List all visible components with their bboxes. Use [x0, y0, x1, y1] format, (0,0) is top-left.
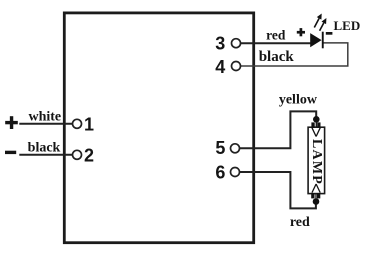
LED light arrow 1 [314, 18, 319, 27]
LED light arrow 2 [320, 23, 324, 31]
lamp top connector [311, 116, 320, 137]
terminal 5 [231, 144, 240, 153]
plus sign (LED) [297, 28, 305, 36]
lamp bottom connector [311, 184, 320, 205]
minus sign (LED) [326, 32, 333, 35]
terminal 6 [231, 168, 240, 177]
terminal 3 [232, 39, 241, 48]
svg-text:2: 2 [84, 145, 94, 165]
svg-text:black: black [259, 49, 295, 65]
terminal 2 [73, 150, 82, 159]
svg-text:LAMP: LAMP [309, 139, 324, 185]
wire black lead [19, 154, 72, 156]
wire terminal6 to lamp bottom [239, 172, 316, 208]
wire terminal3 to LED anode [240, 42, 310, 44]
svg-text:white: white [28, 110, 61, 125]
svg-text:yellow: yellow [279, 92, 318, 107]
wire terminal5 to lamp top [239, 111, 316, 148]
wire LED return loop to terminal4 [240, 43, 347, 66]
svg-text:4: 4 [215, 57, 225, 77]
control box outline [64, 13, 253, 243]
lamp body [308, 127, 325, 193]
svg-text:6: 6 [215, 163, 225, 183]
terminal 4 [232, 62, 241, 71]
svg-text:red: red [266, 28, 286, 43]
wire white lead [19, 123, 72, 125]
plus sign (white lead) [5, 116, 18, 129]
minus sign (black lead) [5, 151, 16, 154]
svg-text:3: 3 [215, 33, 225, 53]
terminal 1 [73, 119, 82, 128]
LED D1 [310, 14, 326, 49]
svg-text:red: red [290, 215, 310, 230]
svg-text:5: 5 [215, 138, 225, 158]
svg-text:black: black [28, 140, 61, 155]
svg-text:LED: LED [334, 18, 361, 33]
svg-text:1: 1 [84, 114, 94, 134]
